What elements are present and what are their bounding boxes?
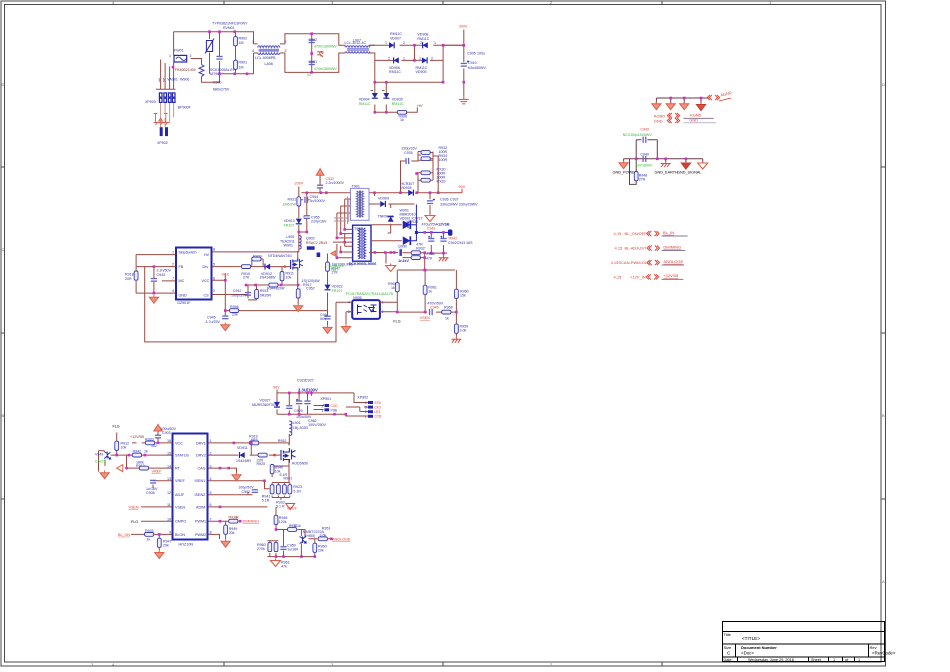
svg-text:H/Y1800V: H/Y1800V	[636, 164, 653, 168]
svg-text:VD905: VD905	[416, 70, 427, 74]
svg-text:Size: Size	[724, 645, 733, 650]
svg-text:R920: R920	[145, 438, 154, 442]
svg-text:N905: N905	[353, 296, 362, 300]
svg-text:1: 1	[403, 57, 405, 61]
svg-text:2.2n/1000V: 2.2n/1000V	[326, 181, 345, 185]
svg-text:XP902: XP902	[357, 396, 368, 400]
svg-text:VD904: VD904	[359, 97, 370, 101]
svg-text:63u450WV: 63u450WV	[468, 66, 486, 70]
svg-text:RVN01: RVN01	[223, 26, 235, 30]
svg-text:<Doc>: <Doc>	[741, 651, 754, 656]
svg-text:R901: R901	[239, 61, 248, 65]
svg-text:1: 1	[365, 415, 367, 419]
svg-text:FLG: FLG	[113, 425, 120, 429]
svg-text:XP902: XP902	[157, 141, 168, 145]
svg-text:A: A	[882, 579, 885, 584]
svg-text:1u/16#: 1u/16#	[287, 548, 298, 552]
svg-text:ICW17: ICW17	[412, 216, 423, 220]
svg-text:2: 2	[210, 451, 212, 455]
svg-text:PWM1: PWM1	[195, 520, 206, 524]
svg-text:CCB: CCB	[374, 415, 382, 419]
svg-text:220p/16V: 220p/16V	[402, 147, 418, 151]
svg-text:2: 2	[322, 405, 324, 409]
svg-text:ANOLOGE: ANOLOGE	[663, 259, 683, 264]
svg-text:4,15: 4,15	[614, 274, 623, 279]
svg-text:TYP03821NFC3F0NY: TYP03821NFC3F0NY	[212, 22, 248, 26]
svg-text:SkipSwitch: SkipSwitch	[179, 251, 197, 255]
svg-text:10: 10	[167, 517, 171, 521]
svg-text:2: 2	[403, 41, 405, 45]
svg-text:VD930: VD930	[392, 97, 403, 101]
svg-text:C940: C940	[640, 153, 649, 157]
svg-text:1: 1	[419, 57, 421, 61]
svg-text:VD913: VD913	[284, 219, 295, 223]
svg-text:HER30: HER30	[407, 220, 419, 224]
svg-text:5.1R: 5.1R	[293, 489, 301, 493]
svg-text:T901: T901	[352, 184, 360, 188]
svg-text:C: C	[2, 247, 5, 252]
svg-text:C937: C937	[450, 198, 459, 202]
svg-text:VSEN: VSEN	[420, 316, 430, 320]
svg-text:GND_EARTH: GND_EARTH	[655, 171, 679, 175]
svg-text:VREF: VREF	[152, 469, 163, 473]
svg-text:1k: 1k	[147, 537, 151, 541]
svg-text:1S4148R: 1S4148R	[236, 459, 251, 463]
svg-text:VCC: VCC	[222, 273, 230, 277]
svg-text:1N4148W: 1N4148W	[260, 276, 277, 280]
svg-text:C943: C943	[157, 273, 166, 277]
svg-text:2: 2	[213, 289, 215, 293]
svg-text:LE3: LE3	[374, 410, 380, 414]
svg-text:PWM2: PWM2	[195, 533, 206, 537]
svg-text:Q990: Q990	[398, 244, 407, 248]
svg-text:PC417RAN2017RA111AA17B: PC417RAN2017RA111AA17B	[346, 292, 394, 296]
svg-text:R938: R938	[426, 252, 435, 256]
svg-text:DIMMING: DIMMING	[243, 520, 260, 524]
svg-text:120k: 120k	[279, 520, 287, 524]
svg-text:GZ901F: GZ901F	[177, 301, 191, 305]
svg-text:C942: C942	[233, 289, 242, 293]
svg-text:VD908: VD908	[417, 33, 428, 37]
svg-text:VD909: VD909	[378, 197, 389, 201]
svg-text:CALT1: CALT1	[95, 460, 106, 464]
svg-text:BL_ON: BL_ON	[118, 533, 130, 537]
svg-text:LCL-3012-4C: LCL-3012-4C	[345, 41, 367, 45]
svg-text:5: 5	[213, 263, 215, 267]
svg-text:4,15: 4,15	[614, 231, 623, 236]
svg-text:1: 1	[322, 409, 324, 413]
svg-text:DRV2: DRV2	[196, 454, 206, 458]
svg-text:R918: R918	[125, 273, 134, 277]
svg-text:2: 2	[172, 263, 174, 267]
svg-text:4: 4	[365, 401, 367, 405]
svg-text:RM11C: RM11C	[359, 102, 371, 106]
svg-text:1: 1	[252, 40, 254, 44]
svg-text:C936: C936	[440, 198, 449, 202]
svg-text:R952: R952	[278, 439, 287, 443]
svg-text:47k: 47k	[281, 565, 287, 569]
svg-text:D: D	[882, 82, 885, 87]
svg-text:0R20R: 0R20R	[260, 294, 272, 298]
svg-text:VD911: VD911	[237, 446, 248, 450]
svg-text:2: 2	[431, 57, 433, 61]
svg-text:820R: 820R	[276, 287, 285, 291]
svg-text:HV': HV'	[417, 104, 423, 108]
svg-text:+12V_IN: +12V_IN	[630, 274, 646, 279]
svg-text:VSEN: VSEN	[175, 505, 185, 509]
svg-text:2: 2	[388, 57, 390, 61]
svg-text:<RevCode>: <RevCode>	[872, 651, 896, 656]
svg-text:4: 4	[210, 477, 212, 481]
svg-text:10k: 10k	[286, 276, 292, 280]
svg-text:1: 1	[382, 301, 384, 305]
svg-text:20R: 20R	[125, 277, 132, 281]
svg-text:5.1 R: 5.1 R	[276, 505, 285, 509]
svg-text:CMPO: CMPO	[175, 520, 186, 524]
svg-text:C946: C946	[430, 306, 439, 310]
svg-text:DRV1: DRV1	[196, 441, 206, 445]
svg-text:3: 3	[348, 310, 350, 314]
svg-text:7: 7	[210, 517, 212, 521]
svg-text:VREF: VREF	[175, 479, 186, 483]
svg-text:1k: 1k	[445, 317, 449, 321]
svg-text:Document Number: Document Number	[741, 645, 777, 650]
svg-text:Title: Title	[724, 632, 732, 637]
svg-text:1: 1	[169, 54, 171, 58]
svg-text:C927: C927	[305, 379, 314, 383]
svg-text:CS: CS	[204, 293, 210, 297]
svg-text:FW01: FW01	[174, 49, 184, 53]
svg-text:680n275V: 680n275V	[213, 88, 230, 92]
svg-text:2: 2	[420, 41, 422, 45]
svg-text:STB: STB	[374, 401, 381, 405]
svg-text:VD907: VD907	[390, 37, 401, 41]
svg-text:C900: C900	[213, 81, 222, 85]
svg-text:R925: R925	[257, 462, 266, 466]
svg-text:4: 4	[252, 49, 254, 53]
svg-text:8: 8	[213, 248, 215, 252]
svg-text:470V/50V: 470V/50V	[427, 301, 443, 305]
svg-text:5: 5	[210, 491, 212, 495]
svg-text:L901: L901	[293, 421, 301, 425]
svg-text:W906: W906	[180, 78, 189, 82]
svg-text:BL_ON/OFF: BL_ON/OFF	[625, 231, 648, 236]
svg-text:16: 16	[167, 439, 171, 443]
svg-text:B: B	[2, 413, 5, 418]
svg-text:C905: C905	[467, 52, 476, 56]
svg-text:20k: 20k	[318, 549, 324, 553]
svg-text:C902: C902	[309, 38, 318, 42]
svg-text:BLON: BLON	[175, 533, 185, 537]
svg-text:100V/250V: 100V/250V	[308, 423, 326, 427]
svg-text:1k: 1k	[235, 516, 239, 520]
svg-text:1: 1	[210, 439, 212, 443]
svg-text:C942C943 16S: C942C943 16S	[448, 241, 473, 245]
svg-text:+12VSB: +12VSB	[436, 222, 450, 226]
svg-text:C902: C902	[242, 490, 251, 494]
svg-text:RM11C: RM11C	[389, 70, 401, 74]
svg-text:V949: V949	[95, 453, 103, 457]
svg-text:BL_IN: BL_IN	[663, 230, 674, 235]
svg-text:R933: R933	[145, 529, 154, 533]
svg-text:R946: R946	[230, 305, 239, 309]
svg-text:Drv: Drv	[203, 265, 209, 269]
svg-text:RM11C: RM11C	[392, 102, 404, 106]
svg-text:100p/50V: 100p/50V	[231, 294, 247, 298]
svg-text:R944: R944	[267, 287, 276, 291]
svg-text:STATUS: STATUS	[175, 454, 190, 458]
svg-text:(Y950): (Y950)	[305, 534, 316, 538]
svg-text:C945: C945	[207, 316, 216, 320]
svg-text:1k: 1k	[144, 450, 148, 454]
svg-text:FR107: FR107	[284, 223, 295, 227]
svg-text:1: 1	[833, 658, 835, 662]
svg-text:GND_SIGNAL: GND_SIGNAL	[677, 171, 701, 175]
svg-text:R932': R932'	[416, 246, 426, 250]
svg-text:LB(-302B: LB(-302B	[293, 426, 309, 430]
svg-text:MT90: MT90	[210, 72, 219, 76]
svg-text:1k: 1k	[428, 289, 432, 293]
svg-text:2: 2	[365, 410, 367, 414]
svg-text:6: 6	[210, 503, 212, 507]
svg-text:GND: GND	[179, 293, 188, 297]
svg-text:R942: R942	[133, 450, 142, 454]
svg-text:1: 1	[385, 41, 387, 45]
svg-text:RT: RT	[175, 467, 181, 471]
svg-text:3: 3	[210, 464, 212, 468]
svg-text:C935: C935	[404, 151, 413, 155]
svg-text:1: 1	[172, 251, 174, 255]
svg-text:50V: 50V	[320, 317, 327, 321]
svg-text:5.1k: 5.1k	[294, 524, 301, 528]
svg-text:7: 7	[172, 277, 174, 281]
svg-text:C929: C929	[294, 409, 303, 413]
svg-text:2: 2	[285, 40, 287, 44]
svg-text:GND: GND	[654, 118, 663, 123]
svg-text:3.0k: 3.0k	[460, 328, 467, 332]
svg-text:RX33: RX33	[437, 180, 446, 184]
svg-text:VREF: VREF	[287, 507, 298, 511]
svg-text:5.1R: 5.1R	[262, 499, 270, 503]
svg-text:1M6/2W: 1M6/2W	[283, 202, 297, 206]
svg-text:LA06: LA06	[265, 62, 273, 66]
svg-text:VSEN: VSEN	[129, 505, 139, 509]
svg-text:2: 2	[190, 54, 192, 58]
svg-text:R909: R909	[253, 255, 262, 259]
svg-text:3.0k: 3.0k	[320, 534, 327, 538]
svg-text:1: 1	[434, 41, 436, 45]
svg-text:Date:: Date:	[724, 658, 733, 662]
svg-text:P3B: P3B	[331, 408, 338, 412]
svg-text:GND: GND	[689, 118, 698, 123]
svg-text:C901: C901	[309, 60, 318, 64]
svg-text:VCC: VCC	[202, 279, 210, 283]
svg-text:Q902: Q902	[306, 237, 315, 241]
svg-text:1M: 1M	[239, 66, 244, 70]
svg-text:R941: R941	[284, 477, 293, 481]
svg-text:VA901: VA901	[167, 78, 178, 82]
svg-text:102: 102	[151, 444, 157, 448]
svg-text:BL-ADJUST: BL-ADJUST	[625, 246, 647, 251]
svg-text:T9#7: T9#7	[330, 268, 338, 272]
svg-text:NTD4NANT4G: NTD4NANT4G	[268, 254, 292, 258]
svg-text:330u20WV 330u/20WV: 330u20WV 330u/20WV	[440, 202, 478, 206]
svg-text:C949: C949	[640, 128, 649, 132]
svg-text:1: 1	[858, 658, 860, 662]
svg-text:4: 4	[172, 289, 174, 293]
svg-text:VCC: VCC	[175, 441, 183, 445]
svg-text:ADIM: ADIM	[196, 505, 205, 509]
svg-text:MC: MC	[179, 279, 185, 283]
svg-text:15k: 15k	[460, 293, 466, 297]
svg-text:FLG: FLG	[393, 320, 400, 324]
svg-text:C941: C941	[427, 227, 436, 231]
svg-text:R951: R951	[322, 527, 331, 531]
svg-text:1M: 1M	[239, 41, 244, 45]
svg-text:<TITLE>: <TITLE>	[742, 636, 760, 641]
svg-text:Wednesday, June 29, 2016: Wednesday, June 29, 2016	[748, 658, 794, 662]
svg-text:13: 13	[167, 477, 171, 481]
svg-text:C903: C903	[162, 431, 171, 435]
svg-text:XP900: XP900	[145, 100, 156, 104]
svg-text:X2: X2	[307, 73, 311, 77]
svg-text:FR107: FR107	[332, 289, 343, 293]
svg-text:1n1kV: 1n1kV	[398, 259, 409, 263]
svg-text:11: 11	[167, 503, 171, 507]
svg-text:FB: FB	[179, 265, 184, 269]
svg-text:8: 8	[210, 531, 212, 535]
svg-text:MURS360T3G: MURS360T3G	[252, 403, 276, 407]
svg-text:4,15: 4,15	[615, 246, 624, 251]
svg-text:R931: R931	[288, 198, 297, 202]
svg-text:3: 3	[285, 49, 287, 53]
svg-text:TNR9G21: TNR9G21	[378, 215, 394, 219]
svg-text:VD928: VD928	[401, 186, 412, 190]
svg-text:90V: 90V	[273, 385, 280, 389]
svg-text:R902: R902	[239, 37, 248, 41]
svg-text:4,15SCAN-PWM-OUT: 4,15SCAN-PWM-OUT	[611, 260, 651, 265]
svg-text:1k: 1k	[400, 118, 404, 122]
svg-text:27K: 27K	[243, 276, 250, 280]
svg-text:CK3: CK3	[374, 405, 381, 409]
svg-text:C908: C908	[146, 491, 155, 495]
svg-text:FLG: FLG	[131, 520, 138, 524]
svg-text:D: D	[2, 82, 5, 87]
svg-text:100u: 100u	[477, 52, 485, 56]
svg-text:4.7u/25V: 4.7u/25V	[206, 320, 221, 324]
svg-text:B: B	[882, 413, 885, 418]
svg-text:Sheet: Sheet	[811, 658, 822, 662]
svg-text:47K: 47K	[426, 257, 433, 261]
svg-text:C952: C952	[306, 287, 315, 291]
svg-text:200V: 200V	[295, 182, 304, 186]
svg-text:+12V/5B: +12V/5B	[130, 435, 144, 439]
svg-text:BP900F: BP900F	[178, 106, 192, 110]
svg-text:470n/1800WV: 470n/1800WV	[314, 67, 337, 71]
svg-text:4: 4	[348, 301, 350, 305]
svg-text:2.2n/50V: 2.2n/50V	[157, 269, 172, 273]
svg-text:270k: 270k	[257, 547, 265, 551]
svg-text:R958: R958	[444, 306, 453, 310]
svg-text:W901: W901	[284, 244, 293, 248]
svg-text:14: 14	[167, 464, 171, 468]
svg-text:HV: HV	[204, 253, 210, 257]
svg-text:12: 12	[167, 491, 171, 495]
svg-text:27R: 27R	[639, 178, 646, 182]
svg-text:3: 3	[365, 406, 367, 410]
svg-text:HOZ10N: HOZ10N	[179, 542, 194, 546]
svg-text:90V: 90V	[459, 185, 466, 189]
svg-text:DIMMING: DIMMING	[663, 244, 681, 249]
svg-text:ISEN2: ISEN2	[195, 493, 206, 497]
svg-text:CAG: CAG	[198, 467, 206, 471]
svg-text:+12VSB: +12VSB	[663, 273, 678, 278]
svg-text:6: 6	[213, 277, 215, 281]
svg-text:9: 9	[169, 531, 171, 535]
svg-text:AOD5N50: AOD5N50	[292, 461, 308, 465]
svg-text:NC/100p/1000WV: NC/100p/1000WV	[623, 133, 653, 137]
svg-text:20k: 20k	[229, 531, 235, 535]
svg-text:KGND: KGND	[690, 112, 701, 117]
svg-text:10k: 10k	[121, 446, 127, 450]
svg-text:XP901: XP901	[320, 397, 331, 401]
svg-text:220p/16V: 220p/16V	[311, 220, 327, 224]
svg-text:300V: 300V	[459, 25, 468, 29]
svg-text:20k: 20k	[163, 543, 169, 547]
svg-text:470n/1800WV: 470n/1800WV	[314, 44, 337, 48]
svg-text:15: 15	[167, 451, 171, 455]
svg-text:1k: 1k	[391, 286, 395, 290]
svg-text:T902: T902	[354, 227, 362, 231]
svg-text:23k: 23k	[232, 313, 238, 317]
svg-text:RSAC2 2B15: RSAC2 2B15	[306, 241, 327, 245]
svg-text:3n/1000V: 3n/1000V	[310, 199, 326, 203]
svg-text:ADJF: ADJF	[175, 493, 185, 497]
svg-text:C910: C910	[468, 61, 477, 65]
svg-text:Rev: Rev	[870, 645, 877, 650]
svg-text:ISEN1: ISEN1	[195, 479, 206, 483]
svg-text:2: 2	[382, 310, 384, 314]
svg-text:FK30B21400: FK30B21400	[175, 68, 196, 72]
svg-text:LCL-9006PB: LCL-9006PB	[255, 56, 276, 60]
svg-text:ANOLOGE: ANOLOGE	[332, 537, 351, 541]
svg-text:SCK9006L9006: SCK9006L9006	[349, 261, 378, 266]
svg-text:100R: 100R	[439, 158, 448, 162]
svg-text:RM11C: RM11C	[390, 32, 402, 36]
